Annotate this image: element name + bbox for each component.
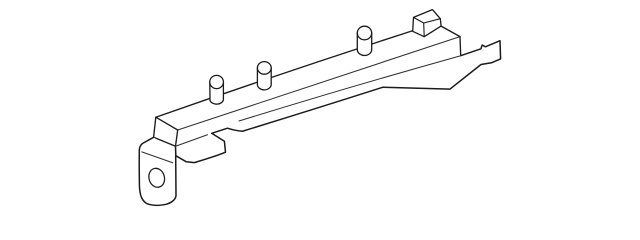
peg 2 top rim bbox=[257, 62, 271, 75]
peg 3 body bbox=[357, 33, 371, 55]
peg 3 top rim bbox=[357, 26, 371, 40]
bracket hole bbox=[147, 166, 167, 189]
rail right end short top edge bbox=[441, 26, 460, 36]
peg 1 top rim bbox=[210, 75, 224, 88]
rail front face bottom edge right segment bbox=[239, 56, 461, 121]
bracket fold line bbox=[142, 152, 173, 163]
rail right end vertical edge bbox=[459, 37, 462, 56]
cube boss silhouette bbox=[413, 10, 441, 37]
rail back-top edge bbox=[156, 30, 415, 117]
cube boss top-front edges bbox=[414, 17, 441, 23]
lower flange and right tab outline bbox=[176, 41, 501, 163]
mounting bracket outline bbox=[139, 137, 176, 205]
peg 1 body bbox=[210, 82, 224, 104]
rail front-top crease edge bbox=[178, 37, 460, 130]
rail front face bottom edge left segment bbox=[176, 135, 208, 146]
peg 2 body bbox=[257, 68, 271, 90]
cube boss front vertical edge bbox=[423, 23, 426, 37]
rail left end face bbox=[154, 117, 178, 146]
